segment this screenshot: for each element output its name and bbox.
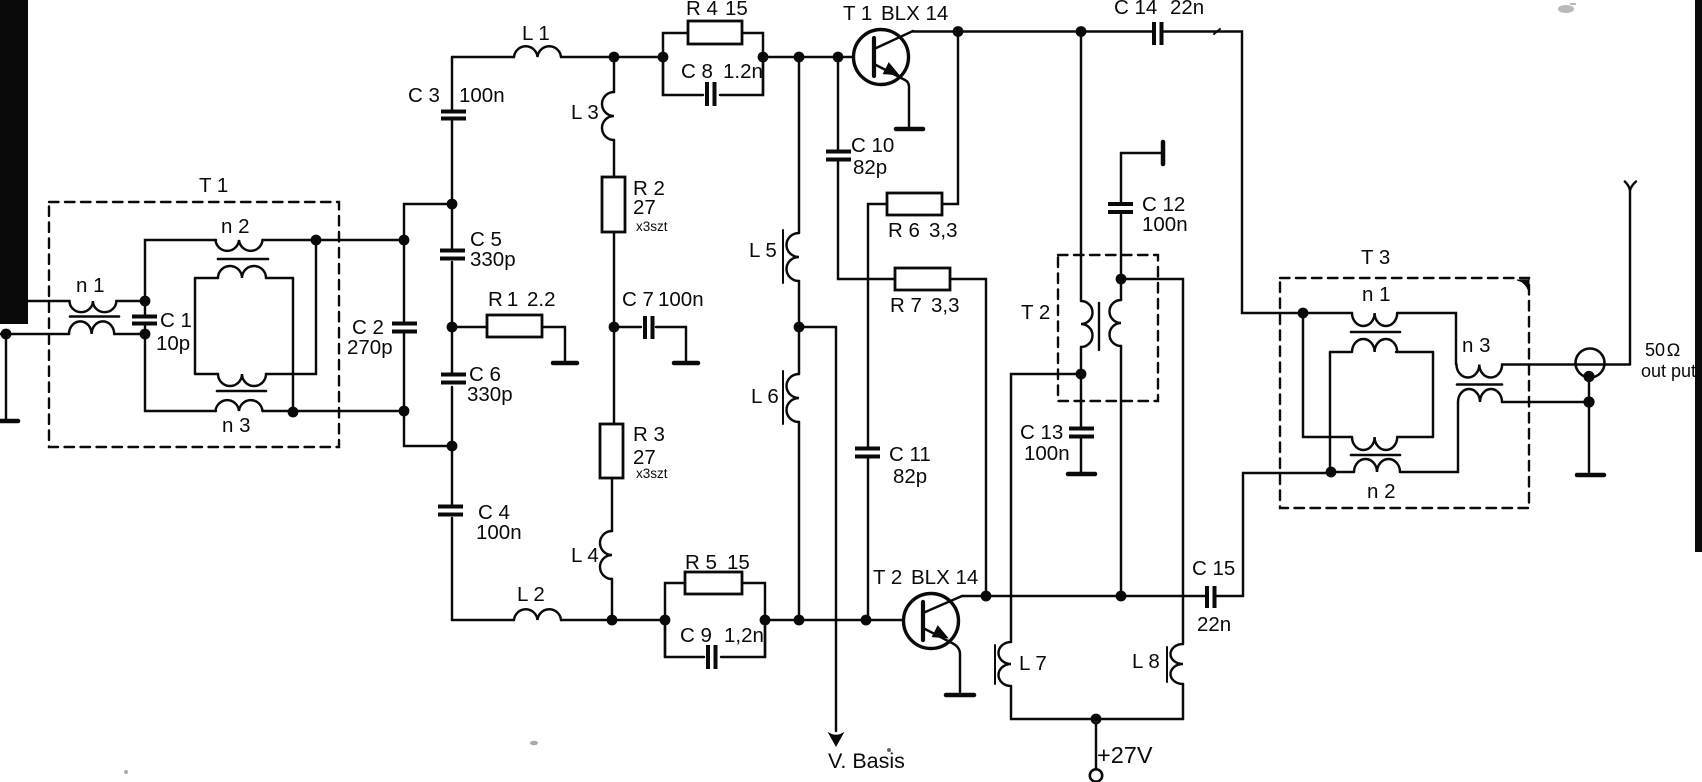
wire R7 right riser to T2 collector node xyxy=(950,279,986,596)
ground output shield xyxy=(1577,473,1604,478)
svg-text:C 13: C 13 xyxy=(1020,421,1063,444)
resistor R7 xyxy=(895,268,950,290)
transformer T3 winding n2 inner xyxy=(1352,437,1397,450)
wire T1 cross riser B (n3-inner to top node) xyxy=(266,240,316,374)
svg-text:out put: out put xyxy=(1641,361,1696,381)
svg-text:L 8: L 8 xyxy=(1132,650,1160,673)
svg-text:100n: 100n xyxy=(476,521,522,544)
node T2 transformer left top xyxy=(1076,26,1087,37)
wire T2 transformer right winding top lead xyxy=(1120,279,1122,300)
wire T1 collector rail xyxy=(913,30,1152,32)
wire bottom rail left xyxy=(452,619,514,621)
inductor L7 xyxy=(998,642,1011,686)
wire main input bus vertical xyxy=(451,57,453,620)
svg-text:R 5: R 5 xyxy=(685,551,717,574)
capacitor C8 xyxy=(663,57,763,106)
node C2 bottom xyxy=(399,406,410,417)
svg-text:T 1: T 1 xyxy=(199,174,228,197)
arrowhead V Basis xyxy=(829,733,843,746)
transformer T1 winding n3 inner xyxy=(218,374,266,386)
wire L4 to bottom rail xyxy=(611,579,613,620)
node T3 top entry xyxy=(1298,308,1309,319)
svg-text:R 4: R 4 xyxy=(686,0,718,20)
node bus bottom tee xyxy=(447,441,458,452)
wire T2 collector rail xyxy=(962,595,1205,597)
core bar L8 xyxy=(1166,647,1168,682)
wire bottom rail R5 to T2 base xyxy=(765,619,903,621)
wire C12 to ground bar xyxy=(1121,153,1162,202)
ground C12 vertical bar xyxy=(1161,142,1166,164)
svg-text:BLX 14: BLX 14 xyxy=(911,566,978,589)
transistor T1 xyxy=(854,30,914,127)
wire +27V stem xyxy=(1095,719,1097,769)
wire mid node to V Basis drop xyxy=(799,327,836,731)
capacitor C7 xyxy=(614,316,686,361)
svg-text:3,3: 3,3 xyxy=(929,219,958,242)
wire shield stub xyxy=(1588,377,1590,472)
transformer T2 right winding xyxy=(1110,300,1122,346)
wire T3 cross drop (n1-inner to bottom node) xyxy=(1329,352,1331,472)
wire C1 bottom stub xyxy=(144,326,146,334)
inductor L1 xyxy=(514,46,561,57)
svg-text:T 2: T 2 xyxy=(1021,301,1050,324)
ground T2 emitter xyxy=(946,693,974,698)
node T2 transformer right top xyxy=(1116,274,1127,285)
scan speck near V basis xyxy=(887,748,891,752)
capacitor C13 xyxy=(1069,427,1094,439)
wire L5 stem xyxy=(798,57,800,233)
wire C1 bottom down riser xyxy=(145,334,216,411)
node +27V tee xyxy=(1091,714,1102,725)
svg-text:82p: 82p xyxy=(893,465,927,488)
transformer T3 winding n3 upper xyxy=(1457,365,1503,378)
capacitor C12 xyxy=(1108,202,1133,214)
node C11 tap bottom xyxy=(861,615,872,626)
wire n3 lower right to shield node xyxy=(1502,401,1589,403)
svg-text:22n: 22n xyxy=(1197,613,1231,636)
wire T1 inner loop left side xyxy=(194,278,196,374)
wire C12 riser xyxy=(1120,215,1122,279)
svg-text:C 8: C 8 xyxy=(681,60,713,83)
output connector circle xyxy=(1576,349,1605,378)
wire R6 left to C11 drop xyxy=(868,204,887,447)
wire L6 to bottom rail xyxy=(798,422,800,620)
svg-text:82p: 82p xyxy=(853,156,887,179)
scan speck bottom middle xyxy=(530,741,538,746)
node L3 tap xyxy=(609,52,620,63)
svg-text:C 14: C 14 xyxy=(1114,0,1157,19)
ground input xyxy=(0,419,18,424)
node n3 out xyxy=(288,407,299,418)
wire C10 drop from T1 base xyxy=(837,57,839,150)
svg-text:50 Ω: 50 Ω xyxy=(1645,340,1680,360)
resistor R4 with frame xyxy=(663,21,763,95)
wire T3 bottom path xyxy=(1331,402,1458,472)
capacitor C1 xyxy=(132,315,157,326)
scan artifact black block top-left xyxy=(0,0,28,324)
svg-text:n 3: n 3 xyxy=(1462,334,1491,357)
core bar L5 xyxy=(782,230,784,283)
wire T1 inner loop right drop A (n2-inner to bottom wire) xyxy=(292,278,294,412)
node T2 transformer left bottom xyxy=(1076,369,1087,380)
resistor R5 with frame xyxy=(665,572,765,657)
wire n3 upper right to output xyxy=(1502,363,1630,365)
wire R3 to L4 xyxy=(611,478,613,531)
ink blot T3 box corner xyxy=(1517,280,1529,292)
wire n2 to node xyxy=(263,239,317,241)
ground R1 xyxy=(553,361,577,366)
ground C7 xyxy=(674,361,698,366)
svg-text:n 2: n 2 xyxy=(1367,480,1396,503)
wire bottom rail L2 to R5 frame xyxy=(561,619,665,621)
wire R6 riser xyxy=(942,32,958,205)
wire T3 cross riser (n2-inner to top node) xyxy=(1303,313,1352,437)
wire n3 node to C2 bottom node xyxy=(293,410,404,412)
inductor L8 xyxy=(1171,644,1184,684)
transistor T2 xyxy=(904,594,963,693)
wire T2 transformer left winding bottom lead xyxy=(1080,347,1082,374)
wire top rail R4 to T1 base xyxy=(763,56,853,58)
terminal +27V xyxy=(1090,769,1102,781)
wire n1 outer to n3 top riser xyxy=(1397,313,1456,365)
wire feed node to L8 drop xyxy=(1121,279,1183,644)
scan smudge top right xyxy=(1558,3,1576,13)
svg-text:n 2: n 2 xyxy=(221,215,250,238)
svg-text:C 15: C 15 xyxy=(1192,557,1235,580)
resistor R2 xyxy=(602,177,625,232)
dashed box transformer T3 xyxy=(1280,278,1529,508)
svg-text:100n: 100n xyxy=(658,288,704,311)
svg-text:3,3: 3,3 xyxy=(931,294,960,317)
node connector shield top xyxy=(1583,371,1594,382)
wire C1 top stub xyxy=(144,301,146,314)
wire T1 inner loop top side xyxy=(195,277,293,279)
resistor R1 xyxy=(452,315,565,361)
core bar L6 xyxy=(782,371,784,424)
wire top rail to R4 frame xyxy=(614,56,663,58)
dashed box transformer T1 xyxy=(49,202,339,447)
node shield lower xyxy=(1583,396,1594,407)
wire n3 to node xyxy=(263,410,294,412)
svg-text:C 1: C 1 xyxy=(160,309,192,332)
svg-text:T 1: T 1 xyxy=(843,2,872,25)
wire T3 inner loop bottom right xyxy=(1397,436,1433,438)
svg-text:10p: 10p xyxy=(156,332,190,355)
svg-text:L 2: L 2 xyxy=(517,583,545,606)
transformer T1 winding n2 inner xyxy=(218,266,266,278)
svg-text:100n: 100n xyxy=(1024,442,1070,465)
wire T3 inner loop right side xyxy=(1432,352,1434,437)
svg-text:2.2: 2.2 xyxy=(527,288,556,311)
capacitor C14 xyxy=(1152,22,1164,45)
wire input ground stem xyxy=(5,334,7,419)
node bus top tee xyxy=(447,199,458,210)
node input bottom xyxy=(1,329,12,340)
wire C15 to T3 bottom entry xyxy=(1216,473,1331,596)
scan speck bottom left xyxy=(124,770,128,774)
svg-text:330p: 330p xyxy=(467,383,513,406)
ground T1 emitter xyxy=(896,127,923,132)
svg-text:100n: 100n xyxy=(459,84,505,107)
svg-text:n 1: n 1 xyxy=(76,274,105,297)
svg-text:C 3: C 3 xyxy=(408,84,440,107)
tick artifact on wire xyxy=(1214,29,1220,34)
wire L8 to +27V rail xyxy=(1096,684,1183,719)
node R6 riser top xyxy=(953,26,964,37)
node C7 tap xyxy=(609,322,620,333)
node n2 out xyxy=(311,235,322,246)
transformer T2 core xyxy=(1098,303,1100,350)
wire L3 stem xyxy=(613,57,615,92)
transformer T3 winding n1 core xyxy=(1351,331,1400,334)
wire n1 to C1 top node xyxy=(116,300,145,302)
svg-text:T 3: T 3 xyxy=(1361,246,1390,269)
svg-text:1.2n: 1.2n xyxy=(723,60,763,83)
capacitor C11 xyxy=(855,447,880,459)
wire feed node to L7 drop xyxy=(1011,374,1081,642)
node C1 bottom xyxy=(140,329,151,340)
wire T3 inner loop top side xyxy=(1330,351,1433,353)
svg-text:C 11: C 11 xyxy=(889,443,931,466)
capacitor C3 xyxy=(441,110,466,121)
transformer T3 winding n2 core xyxy=(1351,454,1400,457)
transformer T3 winding n1 outer xyxy=(1352,313,1397,326)
svg-text:+27V: +27V xyxy=(1097,742,1153,768)
wire T1 inner loop bottom left xyxy=(195,373,218,375)
node bus R1 tee xyxy=(447,322,458,333)
svg-text:T 2: T 2 xyxy=(873,566,902,589)
node L5 L6 mid xyxy=(794,322,805,333)
capacitor C10 xyxy=(826,150,851,162)
wire top rail L1 to L3 node xyxy=(561,56,614,58)
capacitor C5 xyxy=(440,249,465,261)
node L6 bottom xyxy=(794,615,805,626)
node L4 bottom xyxy=(607,615,618,626)
capacitor C15 xyxy=(1205,586,1217,608)
svg-text:x3szt: x3szt xyxy=(636,219,668,234)
scan artifact black band right edge xyxy=(1695,0,1702,552)
wire C7 node to R3 xyxy=(613,327,615,424)
node R4 frame left xyxy=(658,52,669,63)
svg-text:n 1: n 1 xyxy=(1362,283,1391,306)
node C1 top xyxy=(140,296,151,307)
capacitor C6 xyxy=(441,373,466,385)
svg-text:22n: 22n xyxy=(1170,0,1204,19)
node L5 tap xyxy=(794,52,805,63)
resistor R3 xyxy=(600,424,623,478)
node C2 top xyxy=(399,235,410,246)
node R5 frame left xyxy=(660,615,671,626)
core bar L7 xyxy=(994,645,996,684)
transformer T3 winding n3 core xyxy=(1457,383,1502,386)
transformer T1 winding n3 core xyxy=(217,390,266,393)
svg-text:R 7: R 7 xyxy=(890,294,922,317)
svg-text:330p: 330p xyxy=(470,248,516,271)
svg-text:L 6: L 6 xyxy=(751,385,779,408)
wire L3 to R2 xyxy=(613,140,615,177)
antenna symbol xyxy=(1625,182,1636,191)
transformer T1 winding n3 outer xyxy=(216,400,263,411)
svg-text:15: 15 xyxy=(725,0,748,20)
wire input top xyxy=(28,300,70,302)
ground C13 xyxy=(1068,472,1095,477)
transformer T1 winding n1 xyxy=(69,301,119,334)
capacitor C4 xyxy=(438,505,463,517)
inductor L6 xyxy=(787,374,800,422)
wire C10 to R7 xyxy=(838,162,895,279)
svg-text:L 7: L 7 xyxy=(1019,652,1047,675)
svg-text:15: 15 xyxy=(727,551,750,574)
svg-text:C 7: C 7 xyxy=(622,288,654,311)
svg-text:100n: 100n xyxy=(1142,213,1188,236)
dashed box transformer T2 xyxy=(1058,255,1158,401)
inductor L5 xyxy=(787,233,800,281)
wire C2 branch top xyxy=(404,204,452,321)
wire T2 transformer right winding bottom lead xyxy=(1120,346,1122,596)
svg-text:C 10: C 10 xyxy=(851,134,894,157)
svg-text:27: 27 xyxy=(633,196,656,219)
wire C11 to T2 base rail xyxy=(867,459,869,620)
wire T3 top path to n1 xyxy=(1303,312,1352,314)
node C10 tap xyxy=(833,52,844,63)
svg-text:n 3: n 3 xyxy=(222,414,251,437)
inductor L3 xyxy=(602,92,614,140)
wire L6 stem xyxy=(798,327,800,374)
capacitor C9 xyxy=(665,620,765,669)
svg-text:R 6: R 6 xyxy=(888,219,920,242)
transformer T3 winding n1 inner xyxy=(1352,339,1397,352)
capacitor C2 xyxy=(392,322,417,334)
svg-text:L 1: L 1 xyxy=(522,22,550,45)
node R4 frame right xyxy=(758,52,769,63)
inductor L2 xyxy=(514,609,561,620)
transformer T3 winding n3 lower xyxy=(1458,389,1502,402)
svg-text:270p: 270p xyxy=(347,336,393,359)
transformer T1 winding n2 outer xyxy=(216,240,263,251)
node T2 transformer right bottom xyxy=(1116,591,1127,602)
node T2 collector xyxy=(981,591,992,602)
svg-text:BLX 14: BLX 14 xyxy=(881,2,948,25)
svg-text:L 3: L 3 xyxy=(571,101,599,124)
node T3 bottom entry xyxy=(1326,467,1337,478)
svg-text:R 1: R 1 xyxy=(488,288,518,311)
node R5 frame right xyxy=(760,615,771,626)
svg-text:V. Basis: V. Basis xyxy=(828,749,905,773)
wire L5 to mid node xyxy=(798,281,800,327)
svg-text:x3szt: x3szt xyxy=(636,466,668,481)
wire T2 transformer left winding top lead xyxy=(1080,32,1082,302)
wire C2 branch bottom xyxy=(404,334,452,446)
wire L7 to +27V rail xyxy=(1011,686,1096,719)
svg-text:L 5: L 5 xyxy=(749,239,777,262)
wire R2 to C7 node xyxy=(613,232,615,327)
svg-text:L 4: L 4 xyxy=(571,544,599,567)
transformer T3 winding n2 outer xyxy=(1354,459,1400,472)
svg-text:R 3: R 3 xyxy=(633,423,665,446)
wire C13 drop xyxy=(1080,374,1082,427)
resistor R6 xyxy=(887,193,942,215)
inductor L4 xyxy=(600,531,612,579)
svg-text:1,2n: 1,2n xyxy=(724,624,764,647)
transformer T2 left winding xyxy=(1081,301,1093,347)
svg-text:C 9: C 9 xyxy=(680,624,712,647)
wire C1 top up-left riser xyxy=(145,240,216,301)
wire n2 node to C2 node xyxy=(316,239,404,241)
wire antenna riser xyxy=(1629,190,1631,365)
wire top rail left xyxy=(452,56,514,58)
wire C13 to ground xyxy=(1080,439,1082,472)
wire n1 bottom to input node xyxy=(0,333,145,335)
transformer T1 winding n2 core xyxy=(218,258,268,261)
wire C14 to T3 top entry xyxy=(1163,32,1303,314)
